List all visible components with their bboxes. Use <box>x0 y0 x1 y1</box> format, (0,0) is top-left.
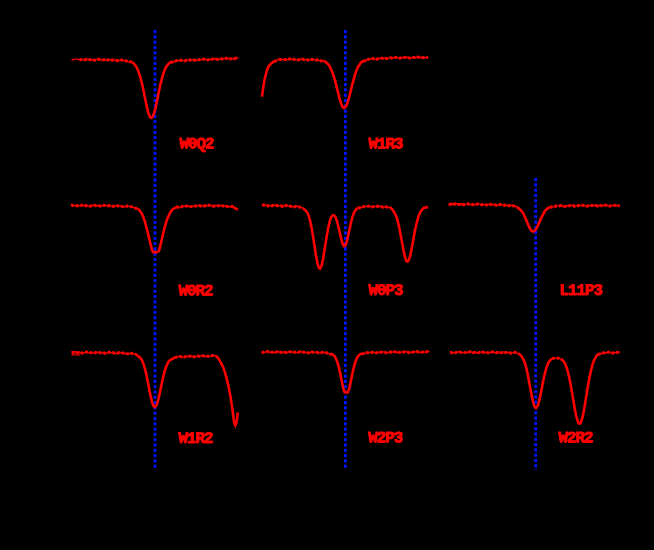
spectrum curve W2P3 <box>262 351 430 392</box>
spectrum curve W0Q2 <box>72 58 239 118</box>
label W2R2 <box>558 429 594 448</box>
spectrum curve W1R2 <box>72 352 238 426</box>
svg-text:W0Q2: W0Q2 <box>180 136 215 154</box>
label W0Q2 <box>179 135 215 154</box>
label L11P3 <box>559 282 603 301</box>
svg-text:W2P3: W2P3 <box>368 430 403 448</box>
svg-text:W0P3: W0P3 <box>369 283 404 301</box>
label W1R2 <box>178 430 214 449</box>
blue dotted rest-wavelength line col2 <box>344 30 347 470</box>
L11P3 extra thin data line at left <box>449 202 463 204</box>
svg-text:L11P3: L11P3 <box>560 283 603 301</box>
spectrum curve L11P3 <box>449 204 620 232</box>
svg-text:W2R2: W2R2 <box>559 430 594 448</box>
svg-text:W1R3: W1R3 <box>369 136 404 154</box>
svg-text:W1R2: W1R2 <box>179 431 214 449</box>
spectrum curve W1R3 <box>262 57 428 108</box>
svg-text:W0R2: W0R2 <box>179 283 214 301</box>
spectrum curve W0P3 <box>262 205 428 269</box>
label W2P3 <box>368 429 404 448</box>
spectrum curve W2R2 <box>450 352 620 424</box>
label W1R3 <box>368 135 404 154</box>
label W0R2 <box>178 282 214 301</box>
blue dotted rest-wavelength line col1 <box>154 30 157 470</box>
blue dotted rest-wavelength line col3 <box>534 178 537 470</box>
W1R2 extra thin data line at left <box>72 351 80 353</box>
spectrum curve W0R2 <box>71 205 238 252</box>
label W0P3 <box>368 282 404 301</box>
